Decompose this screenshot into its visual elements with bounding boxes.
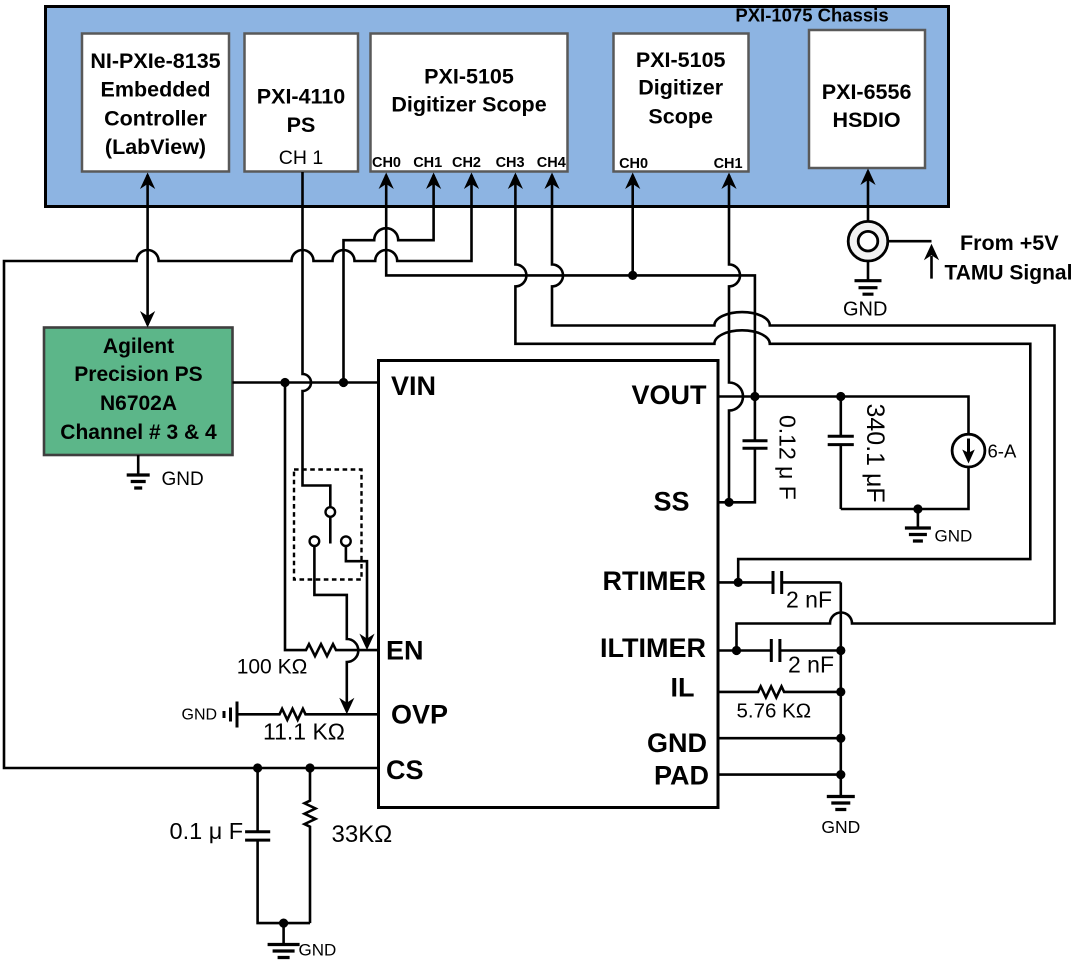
node ILTIMER right	[836, 646, 845, 655]
arrowhead up CH3 scope1	[508, 173, 523, 190]
box DUT regulator	[379, 361, 719, 808]
svg-text:Digitizer Scope: Digitizer Scope	[391, 93, 546, 117]
node VOUT line C	[628, 271, 637, 280]
svg-text:GND: GND	[843, 299, 887, 321]
svg-text:ILTIMER: ILTIMER	[600, 633, 706, 663]
svg-text:EN: EN	[386, 636, 424, 666]
svg-text:N6702A: N6702A	[100, 392, 177, 415]
node RTIMER	[734, 578, 743, 587]
arrowhead down onto EN	[359, 634, 374, 651]
svg-text:SS: SS	[653, 487, 689, 517]
wire 0.1uF branch off CS	[258, 768, 310, 923]
svg-text:PAD: PAD	[654, 761, 709, 791]
svg-text:GND: GND	[299, 941, 337, 960]
capacitor 0.1uF plates	[245, 832, 270, 840]
node CS-0.1uF	[253, 763, 262, 772]
wire switch blade	[329, 517, 332, 544]
svg-text:Digitizer: Digitizer	[638, 76, 723, 100]
svg-text:CH3: CH3	[496, 155, 525, 171]
svg-text:PXI-4110: PXI-4110	[257, 85, 345, 109]
arrowhead up CH0 scope2	[625, 173, 640, 190]
box PXI-6556 HSDIO	[809, 30, 925, 168]
wire CH4 to ILTIMER loop	[552, 175, 1055, 651]
svg-text:CH1: CH1	[714, 156, 743, 172]
svg-text:(LabView): (LabView)	[105, 135, 206, 159]
svg-text:0.12 μ F: 0.12 μ F	[775, 415, 801, 500]
switch pole contact	[326, 507, 336, 517]
wire loop GND stem	[917, 509, 920, 528]
wire 340.1uF cap branch	[839, 397, 842, 510]
arrowhead up TAMU signal	[924, 244, 939, 261]
ground right rail	[827, 797, 855, 810]
wire VIN line from Agilent PS	[233, 381, 379, 384]
wire NI controller to Agilent PS (both arrows)	[146, 175, 149, 325]
arrowhead up CH4 scope1	[544, 173, 559, 190]
wire SS stub	[719, 501, 730, 504]
capacitor 2nF RTIMER plates	[773, 571, 782, 594]
node bottom GND	[279, 919, 288, 928]
switch throw contact 2	[341, 536, 351, 546]
arrowhead down onto OVP	[339, 698, 354, 715]
BOXES	[44, 7, 949, 808]
box PXI-4110 PS	[245, 34, 359, 172]
box NI-PXIe-8135 controller	[82, 34, 229, 172]
svg-text:GND: GND	[935, 527, 973, 546]
switch dashed enclosure	[294, 470, 362, 580]
wire BNC GND stem	[867, 261, 870, 280]
svg-text:PXI-1075 Chassis: PXI-1075 Chassis	[735, 5, 888, 26]
svg-text:TAMU Signal: TAMU Signal	[945, 262, 1073, 285]
arrowhead up CH1 scope2	[721, 173, 736, 190]
svg-text:PXI-5105: PXI-5105	[424, 65, 514, 89]
box PXI-5105 scope 1	[371, 34, 568, 172]
arrowhead up into NI controller	[140, 173, 155, 190]
svg-text:GND: GND	[182, 707, 218, 724]
node VIN-100K	[280, 378, 289, 387]
node IL	[836, 687, 845, 696]
svg-text:PS: PS	[287, 113, 316, 137]
svg-text:CH 1: CH 1	[279, 147, 323, 169]
node loop GND	[913, 504, 922, 513]
wire VOUT line and load loop top	[719, 397, 969, 435]
wire bottom GND stem	[282, 923, 285, 944]
node PAD pin	[836, 770, 845, 779]
ground bottom CS network	[268, 945, 300, 958]
chassis PXI-1075	[46, 7, 949, 207]
ground at load loop	[905, 528, 931, 541]
wire 100K branch: VIN node down to EN with resistor 100K	[285, 383, 379, 657]
wire RTIMER line with 2nF cap	[719, 581, 841, 584]
node ILTIMER left	[732, 646, 741, 655]
wire CS loop: CH2 arrow down, left rail, CS line to DUT	[4, 175, 472, 768]
svg-text:GND: GND	[821, 817, 860, 837]
node CS-33K	[305, 763, 314, 772]
node GND pin	[836, 734, 845, 743]
node VIN-sense	[339, 378, 348, 387]
svg-text:PXI-5105: PXI-5105	[636, 48, 726, 72]
ARROWHEADS	[140, 169, 939, 715]
svg-text:From +5V: From +5V	[960, 231, 1059, 255]
svg-text:Controller: Controller	[104, 107, 207, 131]
arrowhead down into Agilent PS	[140, 311, 155, 328]
svg-text:2 nF: 2 nF	[788, 652, 834, 678]
svg-text:HSDIO: HSDIO	[833, 108, 901, 132]
svg-text:OVP: OVP	[391, 700, 448, 730]
ground below Agilent PS	[127, 475, 150, 488]
wire Agilent GND stem	[137, 455, 140, 475]
svg-text:Channel # 3 & 4: Channel # 3 & 4	[60, 421, 217, 444]
svg-text:PXI-6556: PXI-6556	[822, 80, 912, 104]
wire VOUT sense A: CH0 scope1 down, across, down to VOUT	[386, 175, 755, 397]
svg-text:340.1 μF: 340.1 μF	[861, 404, 889, 503]
BNC connector	[848, 221, 888, 261]
wire load loop bottom	[841, 467, 969, 509]
wire BNC to TAMU arrow	[878, 241, 932, 278]
svg-text:33KΩ: 33KΩ	[332, 821, 393, 848]
wire IL line with resistor 5.76K	[719, 686, 841, 697]
svg-text:Embedded: Embedded	[101, 78, 211, 102]
svg-text:6-A: 6-A	[988, 441, 1017, 462]
node VOUT-340uF	[836, 392, 845, 401]
wire CH3 to RTIMER loop	[515, 175, 1030, 582]
svg-text:Precision PS: Precision PS	[74, 363, 202, 386]
node SS	[724, 498, 733, 507]
arrowhead up CH1 scope1	[426, 173, 441, 190]
svg-text:CH0: CH0	[619, 156, 648, 172]
svg-text:0.1 μ F: 0.1 μ F	[170, 818, 244, 844]
wire CH0 scope2 to VOUT line	[631, 175, 634, 275]
wire PXI-4110 CH1 to switch pole	[303, 172, 331, 507]
wire PAD pin line	[719, 773, 841, 776]
ground sideways at OVP	[224, 702, 237, 728]
current source 6-A	[952, 434, 985, 467]
svg-text:CH4: CH4	[537, 155, 566, 171]
wire 33K branch off CS	[305, 768, 316, 923]
ground below BNC	[855, 281, 882, 295]
svg-text:VIN: VIN	[391, 371, 436, 401]
svg-text:Agilent: Agilent	[103, 335, 174, 358]
capacitor 340.1uF plates	[828, 436, 854, 444]
arrowhead up CH0 scope1	[379, 173, 394, 190]
capacitor 2nF ILTIMER plates	[771, 639, 780, 662]
svg-text:Scope: Scope	[648, 105, 713, 129]
svg-text:CH0: CH0	[372, 155, 401, 171]
svg-text:5.76 KΩ: 5.76 KΩ	[737, 700, 812, 723]
svg-text:2 nF: 2 nF	[786, 587, 832, 613]
svg-text:GND: GND	[162, 469, 204, 490]
svg-text:IL: IL	[671, 673, 695, 703]
arrowhead up CH2 scope1	[464, 173, 479, 190]
svg-text:RTIMER: RTIMER	[603, 566, 707, 596]
wire CH1 scope2 to SS node	[729, 175, 743, 502]
arrowhead up HSDIO	[860, 169, 875, 186]
svg-text:CH1: CH1	[413, 155, 442, 171]
switch throw contact 1	[310, 536, 320, 546]
svg-text:CH2: CH2	[452, 155, 481, 171]
wire HSDIO to BNC	[867, 171, 870, 221]
wire OVP line with resistor 11.1K	[237, 709, 379, 720]
capacitor C-in 0.12uF plates	[743, 441, 768, 449]
wire ILTIMER line with 2nF cap	[719, 649, 841, 652]
box Agilent precision PS (green)	[44, 328, 233, 456]
wire right rail down to GND	[839, 582, 842, 796]
svg-text:GND: GND	[647, 728, 707, 758]
svg-text:CS: CS	[386, 755, 424, 785]
svg-text:NI-PXIe-8135: NI-PXIe-8135	[90, 49, 220, 73]
wire switch throw2 to EN	[346, 546, 367, 639]
svg-text:11.1 KΩ: 11.1 KΩ	[263, 719, 345, 745]
wire 0.12uF cap branch	[729, 397, 755, 503]
wire GND pin line	[719, 737, 841, 740]
svg-text:100 KΩ: 100 KΩ	[237, 656, 308, 679]
node VOUT-0.12uF	[750, 392, 759, 401]
svg-text:VOUT: VOUT	[631, 380, 707, 410]
wire VIN sense: CH1 arrow to VIN node	[344, 175, 434, 383]
box PXI-5105 scope 2	[614, 34, 749, 172]
wire switch throw1 to OVP (hops EN line)	[314, 546, 358, 703]
